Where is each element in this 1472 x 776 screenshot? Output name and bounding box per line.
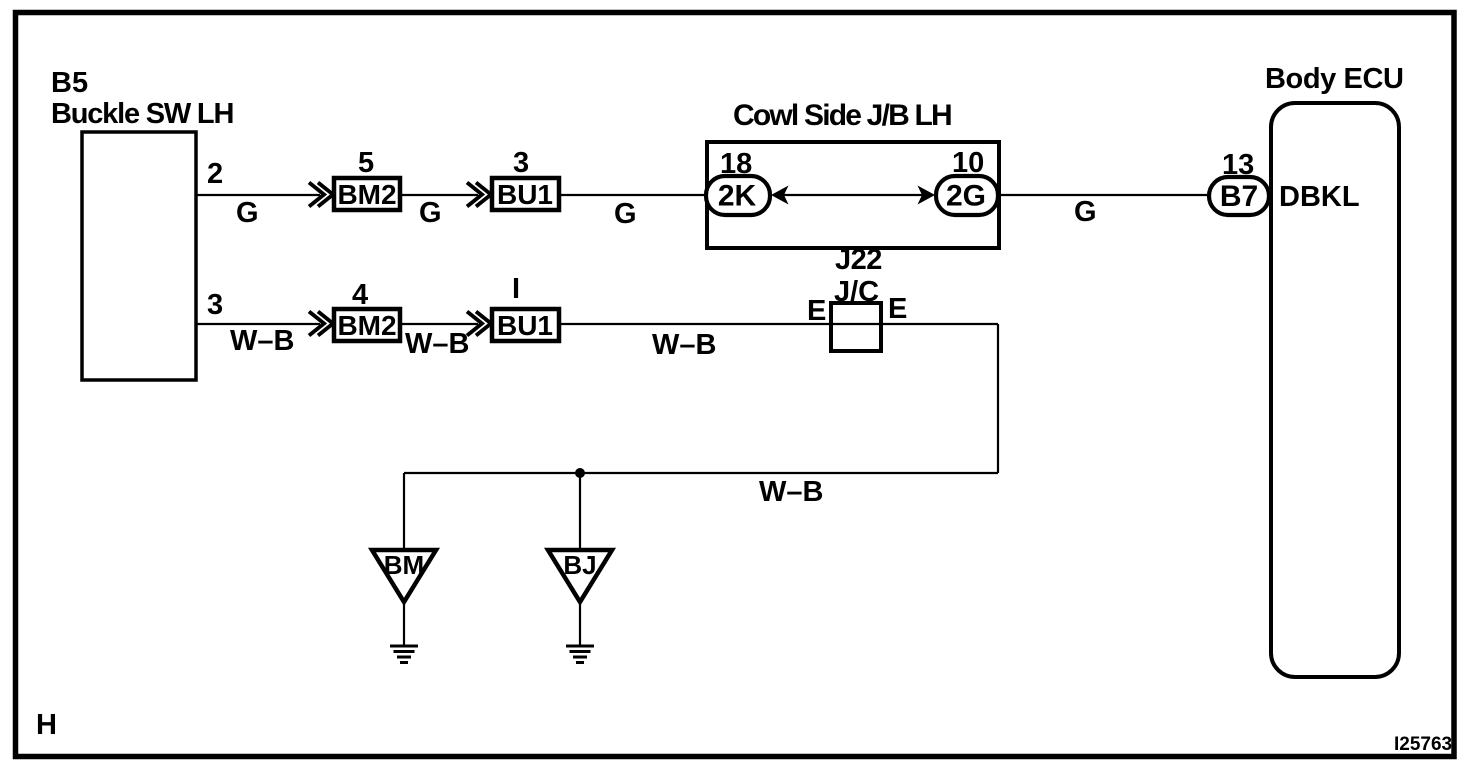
wire BM2 to BU1 (bottom) xyxy=(400,323,478,325)
junction connector J22 J/C box xyxy=(831,303,881,351)
internal wire 2K to 2G xyxy=(784,194,922,196)
connector oval B7 xyxy=(1209,177,1269,215)
connector BU1 (top) xyxy=(492,178,559,210)
arrowhead pointing left at 2K xyxy=(771,186,789,205)
connector block B5 Buckle SW LH xyxy=(82,132,196,380)
wire BU1 to right drop xyxy=(559,323,998,325)
svg-text:G: G xyxy=(419,197,442,229)
svg-text:J22: J22 xyxy=(835,244,882,276)
wire down to BJ ground xyxy=(579,473,581,551)
junction node dot xyxy=(575,468,585,478)
svg-text:BM2: BM2 xyxy=(337,310,396,341)
svg-text:W–B: W–B xyxy=(405,328,469,360)
svg-text:W–B: W–B xyxy=(652,329,716,361)
svg-text:2K: 2K xyxy=(718,180,757,213)
wire BU1 to cowl J/B xyxy=(559,194,708,196)
svg-text:5: 5 xyxy=(358,147,374,179)
svg-text:I: I xyxy=(512,273,520,305)
svg-text:BU1: BU1 xyxy=(497,179,553,210)
svg-text:E: E xyxy=(807,295,826,327)
connector BU1 (bottom) xyxy=(492,309,559,341)
wire vertical drop at right xyxy=(997,324,999,473)
svg-text:BU1: BU1 xyxy=(497,310,553,341)
connector BM2 (top) xyxy=(334,178,400,210)
svg-text:BM2: BM2 xyxy=(337,179,396,210)
chevron splice into BM2 (bottom) xyxy=(309,312,333,336)
svg-text:3: 3 xyxy=(513,147,529,179)
svg-text:2G: 2G xyxy=(946,180,986,213)
svg-text:BM: BM xyxy=(384,550,424,580)
svg-text:2: 2 xyxy=(207,158,223,190)
wire down to BM ground xyxy=(403,473,405,551)
ground point triangle BM xyxy=(372,550,436,602)
svg-text:W–B: W–B xyxy=(230,325,294,357)
svg-text:H: H xyxy=(36,709,57,741)
ECU block Body ECU xyxy=(1271,103,1399,677)
wire BM2 to BU1 (top) xyxy=(400,194,478,196)
svg-text:W–B: W–B xyxy=(759,476,823,508)
svg-text:4: 4 xyxy=(352,279,368,311)
wire pin3 to BM2 (bottom) xyxy=(196,323,320,325)
svg-text:I25763: I25763 xyxy=(1394,734,1452,755)
svg-text:Buckle SW LH: Buckle SW LH xyxy=(51,98,233,130)
svg-text:BJ: BJ xyxy=(563,550,596,580)
svg-text:G: G xyxy=(236,197,259,229)
ground symbol BM xyxy=(390,646,418,663)
ground point triangle BJ xyxy=(548,550,612,602)
svg-text:E: E xyxy=(888,293,907,325)
connector BM2 (bottom) xyxy=(334,309,400,341)
connector oval 2K xyxy=(706,176,770,215)
svg-text:Body ECU: Body ECU xyxy=(1265,63,1404,95)
ground stem BM xyxy=(403,602,405,646)
svg-text:G: G xyxy=(1074,196,1097,228)
ground symbol BJ xyxy=(566,646,594,663)
connector oval 2G xyxy=(936,176,998,215)
svg-text:DBKL: DBKL xyxy=(1279,181,1360,213)
wire horizontal ground bus xyxy=(404,472,998,474)
svg-text:3: 3 xyxy=(207,289,223,321)
wire 2G to B7 xyxy=(998,194,1210,196)
wire pin2 to BM2 xyxy=(196,194,320,196)
chevron splice into BM2 (top) xyxy=(309,183,333,207)
ground stem BJ xyxy=(579,602,581,646)
svg-text:B5: B5 xyxy=(51,67,88,99)
arrowhead pointing right at 2G xyxy=(918,186,936,205)
chevron splice into BU1 (bottom) xyxy=(467,312,491,336)
svg-text:B7: B7 xyxy=(1220,180,1258,213)
svg-text:G: G xyxy=(614,198,637,230)
junction block Cowl Side J/B LH xyxy=(707,142,999,248)
chevron splice into BU1 (top) xyxy=(467,183,491,207)
svg-text:Cowl Side J/B LH: Cowl Side J/B LH xyxy=(733,99,951,132)
